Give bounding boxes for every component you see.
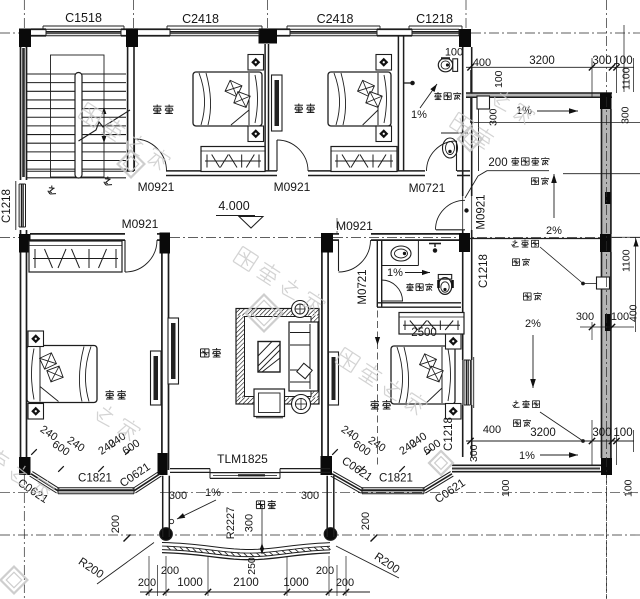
- svg-text:C1821: C1821: [379, 473, 413, 485]
- svg-text:2%: 2%: [546, 225, 562, 237]
- svg-text:100: 100: [445, 47, 463, 59]
- svg-text:C1821: C1821: [78, 473, 112, 485]
- svg-text:M0921: M0921: [274, 180, 311, 194]
- svg-text:100: 100: [623, 479, 635, 497]
- svg-text:250: 250: [246, 557, 258, 575]
- svg-text:100: 100: [613, 55, 632, 67]
- svg-text:1000: 1000: [177, 577, 203, 589]
- svg-text:2100: 2100: [233, 577, 259, 589]
- svg-text:300: 300: [488, 108, 500, 126]
- svg-text:3200: 3200: [529, 55, 555, 67]
- svg-text:300: 300: [468, 444, 480, 462]
- svg-text:200: 200: [161, 565, 179, 577]
- svg-text:300: 300: [620, 106, 632, 124]
- svg-text:300: 300: [576, 311, 594, 323]
- svg-text:200: 200: [138, 577, 156, 589]
- svg-text:2%: 2%: [525, 318, 541, 330]
- svg-text:400: 400: [473, 57, 491, 69]
- svg-text:100: 100: [611, 311, 629, 323]
- svg-text:C1518: C1518: [65, 11, 102, 25]
- svg-text:C2418: C2418: [182, 12, 219, 26]
- svg-text:200: 200: [316, 565, 334, 577]
- svg-text:C1218: C1218: [1, 189, 13, 223]
- svg-text:M0921: M0921: [476, 194, 488, 229]
- svg-text:100: 100: [613, 427, 632, 439]
- svg-text:1%: 1%: [411, 109, 427, 121]
- svg-text:R2227: R2227: [225, 507, 237, 539]
- svg-text:M0921: M0921: [138, 180, 175, 194]
- svg-text:300: 300: [592, 427, 611, 439]
- svg-text:100: 100: [500, 479, 512, 497]
- svg-text:1%: 1%: [387, 267, 403, 279]
- svg-text:300: 300: [301, 490, 319, 502]
- svg-text:2500: 2500: [411, 327, 437, 339]
- svg-text:4.000: 4.000: [218, 199, 249, 213]
- svg-text:200: 200: [336, 577, 354, 589]
- svg-text:200: 200: [488, 157, 507, 169]
- svg-text:C1218: C1218: [443, 417, 455, 451]
- svg-text:300: 300: [244, 514, 256, 532]
- svg-text:M0921: M0921: [336, 219, 373, 233]
- svg-text:C1218: C1218: [416, 12, 453, 26]
- svg-text:3200: 3200: [530, 427, 556, 439]
- svg-text:1%: 1%: [205, 487, 221, 499]
- svg-text:C2418: C2418: [317, 12, 354, 26]
- svg-text:M0721: M0721: [409, 181, 446, 195]
- svg-text:300: 300: [169, 490, 187, 502]
- svg-text:300: 300: [592, 55, 611, 67]
- svg-text:M0721: M0721: [357, 269, 369, 304]
- svg-text:400: 400: [628, 304, 640, 322]
- svg-text:TLM1825: TLM1825: [217, 452, 268, 466]
- svg-text:M0921: M0921: [122, 217, 159, 231]
- svg-text:200: 200: [360, 512, 372, 530]
- svg-text:400: 400: [483, 424, 501, 436]
- svg-text:200: 200: [110, 515, 122, 533]
- svg-text:1%: 1%: [519, 450, 535, 462]
- svg-text:C1218: C1218: [478, 254, 490, 288]
- svg-text:1100: 1100: [621, 67, 633, 90]
- svg-text:1100: 1100: [621, 249, 633, 272]
- svg-text:100: 100: [493, 70, 505, 88]
